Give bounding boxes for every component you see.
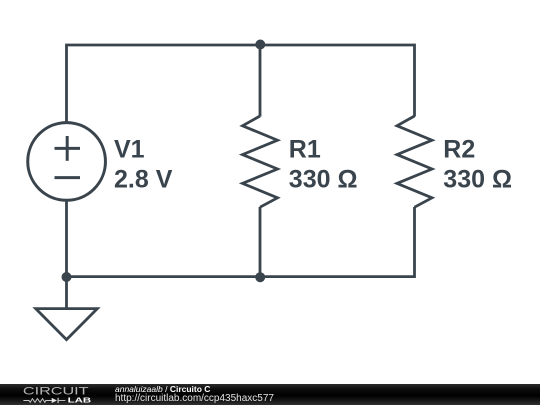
footer url [115,394,274,404]
wire R1 bottom lead [259,207,262,277]
wire V1 negative terminal to ground [65,199,68,309]
svg-text:330 Ω: 330 Ω [443,165,512,193]
wire top net from V1 to R2 [67,45,415,123]
footer credit text [115,385,210,394]
svg-text:V1: V1 [114,136,145,164]
ground [36,309,98,340]
wire R1 top lead [259,45,262,117]
node junction bottom-mid [255,272,265,282]
node junction bottom-left [62,272,72,282]
logo resistor zigzag + diode [23,398,65,403]
voltage source V1 [28,123,106,201]
resistor R2 [397,116,432,207]
svg-text:LAB: LAB [68,396,92,405]
resistor R1 [243,116,278,207]
svg-text:2.8 V: 2.8 V [114,165,173,193]
svg-text:R1: R1 [289,136,321,164]
V1 minus terminal mark [55,176,81,179]
node junction top [255,40,265,50]
footer bar [0,384,540,405]
CircuitLab logo [0,384,110,405]
wire bottom net to R2 [67,207,415,277]
svg-text:330 Ω: 330 Ω [289,165,358,193]
V1 plus terminal mark [55,136,81,161]
svg-text:R2: R2 [443,136,475,164]
